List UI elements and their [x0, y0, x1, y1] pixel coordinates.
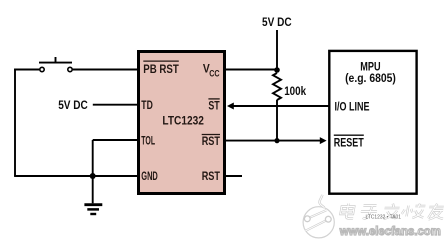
junction node at RST rail: [274, 138, 279, 143]
svg-text:ST: ST: [208, 98, 220, 112]
wire: I/O LINE to ST pin: [231, 105, 329, 107]
svg-text:TD: TD: [141, 98, 153, 112]
svg-text:LTC1232: LTC1232: [162, 113, 204, 127]
wire: left vertical bus: [14, 69, 16, 176]
svg-text:RESET: RESET: [334, 136, 364, 150]
watermark logo circle: [303, 195, 334, 238]
wire: RST to RESET: [225, 140, 321, 142]
wire: TOL vertical down to ground rail: [92, 140, 94, 176]
arrowhead into RESET: [320, 137, 327, 144]
wire: pushbutton left segment: [14, 30, 329, 203]
wire: VCC pin to 5V node: [225, 69, 277, 71]
ground: [92, 176, 94, 203]
svg-text:RST: RST: [202, 169, 221, 183]
wire: RST stub bottom: [225, 175, 242, 177]
wire: pushbutton right segment to PB RST pin: [73, 69, 137, 71]
svg-text:www.elecfans.com: www.elecfans.com: [339, 225, 441, 238]
svg-text:CC: CC: [209, 69, 220, 79]
junction node at ground rail: [90, 173, 96, 179]
svg-text:RST: RST: [202, 134, 221, 148]
svg-text:I/O LINE: I/O LINE: [335, 100, 370, 114]
svg-text:LTC1232 • TA01: LTC1232 • TA01: [366, 215, 402, 221]
svg-text:PB RST: PB RST: [143, 62, 179, 76]
MPU box: [329, 51, 416, 194]
wire: ground rail to GND pin: [14, 175, 137, 177]
svg-text:GND: GND: [141, 169, 158, 183]
svg-text:(e.g. 6805): (e.g. 6805): [345, 71, 396, 85]
svg-text:TOL: TOL: [141, 133, 155, 147]
wire: resistor bottom to RST node: [276, 100, 278, 141]
resistor R1 100k: [273, 73, 281, 100]
watermark CJK text 电子发烧友: [339, 204, 445, 220]
wire: TD pin from 5V DC: [93, 104, 137, 106]
arrowhead into ST: [227, 103, 234, 110]
svg-text:5V DC: 5V DC: [262, 15, 292, 29]
ground symbol: [84, 205, 102, 214]
svg-text:100k: 100k: [284, 84, 306, 98]
junction node at VCC/5V: [274, 67, 280, 73]
wire: 5V DC vertical: [276, 30, 278, 70]
pushbutton S1: [39, 57, 72, 72]
svg-text:5V DC: 5V DC: [58, 98, 88, 112]
wire: TOL pin horizontal: [93, 139, 137, 141]
chip LTC1232 body: [139, 52, 225, 194]
